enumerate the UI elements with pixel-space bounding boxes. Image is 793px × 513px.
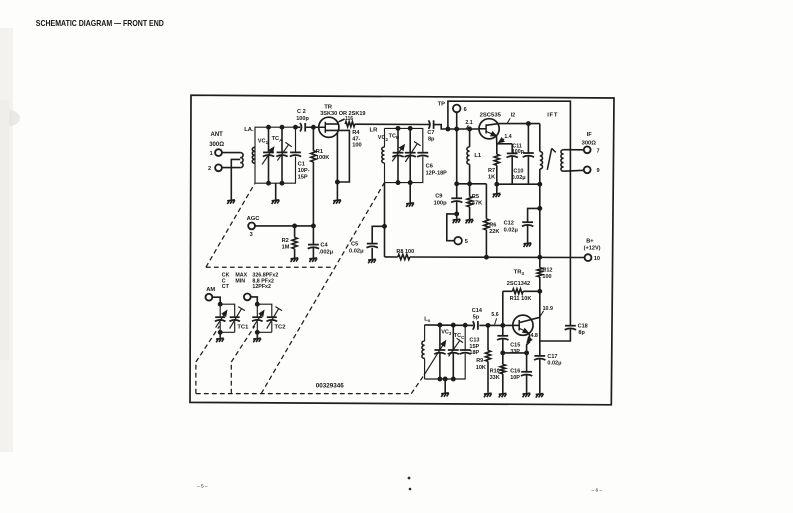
- svg-text:5.6: 5.6: [491, 312, 498, 318]
- dashed gang line VC3: [411, 375, 424, 393]
- coil Lo: [422, 341, 425, 358]
- svg-text:LA.: LA.: [244, 127, 254, 133]
- capacitor C18: [565, 325, 576, 327]
- capacitor TC2 left section: [252, 316, 262, 318]
- coil IFT secondary: [561, 150, 564, 172]
- svg-text:8p: 8p: [578, 330, 585, 336]
- wire AGC bus: [255, 225, 314, 227]
- svg-text:C1: C1: [298, 162, 305, 168]
- svg-text:10: 10: [594, 256, 600, 262]
- svg-text:AGC: AGC: [247, 216, 261, 222]
- variable capacitor VC1: [263, 151, 274, 153]
- resistor R11: [513, 289, 524, 294]
- svg-text:TP: TP: [438, 102, 445, 108]
- test point 5: [447, 214, 457, 241]
- svg-text:0.02μ: 0.02μ: [512, 175, 526, 181]
- svg-text:Lo: Lo: [424, 316, 430, 323]
- wire TP down across rails: [456, 112, 458, 198]
- svg-text:C5: C5: [351, 241, 358, 247]
- svg-text:R10: R10: [490, 369, 500, 375]
- capacitor TC1 left section: [215, 316, 225, 318]
- resistor R8: [398, 254, 410, 259]
- svg-text:TR3: TR3: [514, 269, 525, 276]
- svg-text:300Ω: 300Ω: [209, 142, 224, 148]
- svg-text:2: 2: [208, 166, 211, 172]
- ground C9: [453, 219, 461, 223]
- resistor R9: [487, 325, 489, 350]
- svg-text:TCA: TCA: [272, 136, 283, 143]
- faint marks bottom center: [408, 477, 410, 479]
- ground TC1: [218, 330, 222, 334]
- resistor R1: [312, 127, 314, 150]
- ground R2: [291, 258, 299, 262]
- dashed gang line TC1: [196, 326, 220, 362]
- capacitor C4: [312, 226, 314, 245]
- terminal 2: [215, 164, 222, 171]
- svg-text:– 6 –: – 6 –: [592, 487, 603, 493]
- svg-text:C13: C13: [469, 337, 479, 343]
- svg-text:VC3: VC3: [441, 330, 452, 337]
- ground C5: [368, 259, 376, 263]
- svg-text:I2: I2: [511, 113, 515, 119]
- svg-text:100: 100: [542, 274, 551, 280]
- resistor R10: [502, 353, 504, 365]
- wire IFT secondary to terminal 9: [564, 169, 584, 172]
- svg-text:2SC1342: 2SC1342: [507, 281, 530, 287]
- svg-text:5p: 5p: [473, 315, 480, 321]
- svg-text:1K: 1K: [488, 175, 495, 181]
- TC2 block frame: [257, 304, 272, 332]
- svg-text:9: 9: [597, 168, 600, 174]
- svg-text:2SC535: 2SC535: [480, 112, 502, 118]
- IFT tuning arrow: [547, 148, 551, 169]
- wire B+ rail: [385, 256, 398, 258]
- svg-text:R9: R9: [476, 358, 483, 364]
- svg-text:C7: C7: [427, 130, 434, 136]
- svg-text:VC1: VC1: [258, 139, 269, 146]
- dashed gang line TC2: [231, 326, 254, 362]
- svg-text:R6: R6: [489, 223, 496, 229]
- ground C16: [523, 393, 531, 397]
- ground TC2: [255, 330, 259, 334]
- wire FM RF tank frame: [255, 127, 296, 183]
- ground FM osc tank: [406, 203, 414, 207]
- wire base rail of TR3: [425, 324, 474, 327]
- wire inner top frame: [448, 101, 571, 326]
- resistor R6: [484, 219, 489, 230]
- svg-text:C16: C16: [510, 369, 520, 375]
- junction dots FM osc tank: [396, 126, 400, 130]
- svg-text:10P-: 10P-: [298, 168, 310, 174]
- svg-text:C10: C10: [513, 169, 523, 175]
- dashed gang line VC1: [206, 183, 255, 267]
- inductor L1: [468, 127, 472, 131]
- terminal 7: [584, 146, 591, 153]
- wire mixer ground rail left: [457, 183, 487, 185]
- svg-text:100p: 100p: [434, 200, 447, 206]
- svg-text:0.02μ: 0.02μ: [349, 248, 364, 254]
- capacitor C11: [526, 122, 530, 126]
- resistor R7: [494, 154, 499, 165]
- ground R5: [466, 219, 474, 223]
- svg-text:R7: R7: [488, 168, 495, 174]
- svg-text:.002μ: .002μ: [319, 249, 334, 255]
- svg-text:L1: L1: [474, 153, 482, 159]
- svg-text:C18: C18: [578, 324, 588, 330]
- wire coil center tap: [231, 159, 240, 199]
- svg-text:TCC: TCC: [454, 333, 465, 340]
- resistor R12: [537, 268, 542, 277]
- ground antenna tap: [227, 200, 235, 204]
- capacitor C2: [296, 126, 301, 128]
- wire C15 node to emitter: [503, 352, 527, 354]
- svg-text:IFT: IFT: [547, 113, 558, 119]
- svg-text:TC2: TC2: [275, 325, 286, 331]
- capacitor C14: [473, 321, 474, 330]
- resistor R4 in drain lead: [345, 122, 355, 127]
- svg-text:10.9: 10.9: [543, 306, 553, 312]
- variable capacitor VC2: [393, 152, 404, 154]
- dashed gang vertical TC2: [230, 362, 232, 394]
- resistor R5: [469, 184, 471, 197]
- svg-text:1M: 1M: [282, 244, 290, 250]
- svg-text:47K: 47K: [472, 201, 483, 207]
- wire mixer ground rail right: [497, 183, 540, 185]
- transistor TR3 2SC1342: [513, 315, 533, 335]
- ground R7: [496, 184, 498, 193]
- svg-text:(+12V): (+12V): [584, 246, 601, 252]
- capacitor C17: [539, 341, 541, 356]
- svg-text:C6: C6: [426, 163, 433, 169]
- antenna coil: [240, 153, 243, 168]
- svg-text:15P: 15P: [298, 175, 308, 181]
- terminal 1: [215, 149, 222, 156]
- capacitor C1: [290, 151, 301, 153]
- coil IFT primary: [540, 151, 543, 169]
- wire emitter of TR3: [527, 333, 530, 372]
- svg-text:ANT: ANT: [211, 132, 224, 138]
- capacitor C13: [460, 349, 471, 351]
- left margin scan shading: [0, 28, 13, 452]
- svg-text:R12: R12: [542, 267, 552, 273]
- svg-text:C 2: C 2: [297, 109, 306, 115]
- svg-text:R4: R4: [352, 130, 360, 136]
- capacitor C16: [521, 371, 532, 373]
- dashed gang frame bottom edge: [196, 393, 411, 395]
- svg-text:100: 100: [352, 143, 362, 149]
- ground R10: [499, 393, 507, 397]
- wire osc tank to ground: [409, 183, 411, 203]
- svg-text:MIN: MIN: [235, 278, 245, 284]
- resistor R2: [294, 226, 296, 238]
- trimmer capacitor TCB: [405, 152, 416, 154]
- svg-text:TC1: TC1: [237, 325, 249, 331]
- wire AM terminal to TC1 block: [212, 297, 220, 304]
- wire tank center to ground: [275, 183, 277, 199]
- ground R9: [484, 393, 492, 397]
- svg-text:R1: R1: [316, 149, 323, 155]
- svg-text:C17: C17: [547, 354, 557, 360]
- svg-text:R2: R2: [282, 238, 289, 244]
- svg-text:1.4: 1.4: [504, 134, 511, 140]
- junction dots FM RF tank: [267, 125, 271, 129]
- dashed gang frame left: [195, 362, 197, 394]
- wire terminal2 to antenna coil: [222, 167, 240, 169]
- wire collector vertical: [539, 291, 541, 341]
- wire collector rail: [499, 123, 540, 125]
- terminal 10: [585, 254, 592, 261]
- coil LR: [382, 147, 385, 163]
- svg-text:8p: 8p: [428, 137, 435, 143]
- svg-text:22K: 22K: [489, 229, 499, 235]
- terminal 9: [584, 166, 591, 173]
- svg-text:TCB: TCB: [389, 134, 400, 141]
- wire AM tank to ground: [444, 379, 446, 393]
- svg-text:100p: 100p: [512, 149, 525, 155]
- svg-text:C4: C4: [320, 243, 328, 249]
- wire IFT primary: [539, 124, 541, 152]
- svg-text:47-: 47-: [352, 136, 360, 142]
- svg-text:3: 3: [250, 232, 253, 238]
- AM terminal 2: [244, 294, 251, 301]
- svg-text:0.02μ: 0.02μ: [504, 227, 519, 233]
- svg-text:00329346: 00329346: [316, 383, 345, 390]
- wire drain rail to C7: [355, 123, 430, 125]
- svg-text:33K: 33K: [490, 375, 500, 381]
- schematic border frame: [190, 95, 614, 405]
- svg-text:C15: C15: [510, 343, 520, 349]
- svg-text:6: 6: [464, 107, 467, 113]
- capacitor C15: [502, 325, 504, 335]
- wire IFT secondary to terminal 7: [564, 149, 584, 151]
- svg-text:VC2: VC2: [378, 135, 389, 142]
- svg-text:LR: LR: [370, 127, 379, 133]
- svg-text:C14: C14: [472, 308, 483, 314]
- capacitor C9: [451, 197, 462, 199]
- wire C2 to gate of TR: [307, 126, 325, 128]
- svg-text:5: 5: [465, 239, 468, 245]
- ground C4: [309, 258, 317, 262]
- svg-text:R11 10K: R11 10K: [510, 296, 532, 302]
- svg-text:0.02μ: 0.02μ: [547, 361, 561, 367]
- junction dot inner-frame corner: [446, 127, 450, 131]
- svg-text:10K: 10K: [476, 365, 486, 371]
- coil LA: [252, 147, 255, 163]
- capacitor C6: [417, 152, 428, 154]
- wire C7 to base rail step: [434, 125, 479, 129]
- variable capacitor VC3: [435, 349, 446, 351]
- wire AM tank frame: [425, 325, 466, 379]
- wire IFT primary bottom to B+ feed: [539, 169, 541, 257]
- svg-text:AM: AM: [206, 287, 215, 293]
- svg-text:12PFx2: 12PFx2: [252, 284, 271, 290]
- svg-text:10P: 10P: [510, 375, 520, 381]
- dashed gang line VC2: [261, 183, 384, 394]
- svg-text:300Ω: 300Ω: [582, 141, 597, 147]
- dashed gang frame top edge: [206, 266, 331, 268]
- svg-text:3SK30 OR 2SK19: 3SK30 OR 2SK19: [320, 111, 365, 117]
- capacitor C10: [511, 144, 513, 154]
- trimmer TC2 right section: [267, 316, 277, 318]
- ground C17: [536, 394, 544, 398]
- transistor 2SC535: [479, 119, 499, 139]
- capacitor C5: [372, 226, 384, 243]
- svg-text:7: 7: [597, 148, 600, 154]
- svg-text:R5: R5: [472, 194, 479, 200]
- wire emitter node: [496, 136, 498, 154]
- capacitor C7: [429, 120, 430, 129]
- svg-text:R8 100: R8 100: [396, 249, 414, 255]
- svg-text:15P: 15P: [469, 344, 479, 350]
- svg-text:18P: 18P: [469, 350, 479, 356]
- junction dots AM tank: [438, 377, 442, 381]
- svg-text:IF: IF: [587, 132, 593, 138]
- svg-text:12P-18P: 12P-18P: [426, 170, 448, 176]
- wire terminal1 to antenna coil: [222, 152, 240, 154]
- svg-text:B+: B+: [586, 238, 594, 244]
- junction dot R1 top: [311, 125, 315, 129]
- label 1.16 with leader: [339, 119, 345, 122]
- ground FM RF tank: [272, 200, 280, 204]
- ground C12: [524, 243, 532, 247]
- svg-text:4.8: 4.8: [531, 333, 538, 339]
- svg-text:C12: C12: [504, 221, 514, 227]
- ground AM tank: [441, 393, 449, 397]
- ground TR source: [333, 200, 341, 204]
- svg-text:TR: TR: [324, 105, 333, 111]
- trimmer capacitor TCA: [277, 151, 288, 153]
- wire FM osc tank frame: [385, 128, 423, 182]
- svg-text:100K: 100K: [316, 155, 330, 161]
- test point TP: [453, 105, 461, 113]
- svg-text:CT: CT: [222, 284, 230, 290]
- svg-text:– 5 –: – 5 –: [197, 484, 208, 490]
- trimmer TC1 right section: [230, 316, 240, 318]
- transistor TR 3SK30 FET: [319, 117, 339, 137]
- svg-text:2.1: 2.1: [465, 120, 472, 126]
- AM terminal 1: [206, 294, 213, 301]
- svg-text:1: 1: [210, 151, 213, 157]
- wire AM terminal 2 to TC2 block: [251, 297, 258, 304]
- capacitor C12 tap: [528, 208, 540, 222]
- svg-text:SCHEMATIC DIAGRAM — FRONT END: SCHEMATIC DIAGRAM — FRONT END: [36, 19, 164, 28]
- wire osc tank left leg to B+ rail: [384, 183, 386, 257]
- svg-text:100p: 100p: [296, 116, 309, 122]
- wire R11 to base: [502, 291, 504, 325]
- trimmer capacitor TCC: [448, 349, 459, 351]
- TC1 block frame: [220, 304, 235, 332]
- svg-text:C9: C9: [435, 194, 442, 200]
